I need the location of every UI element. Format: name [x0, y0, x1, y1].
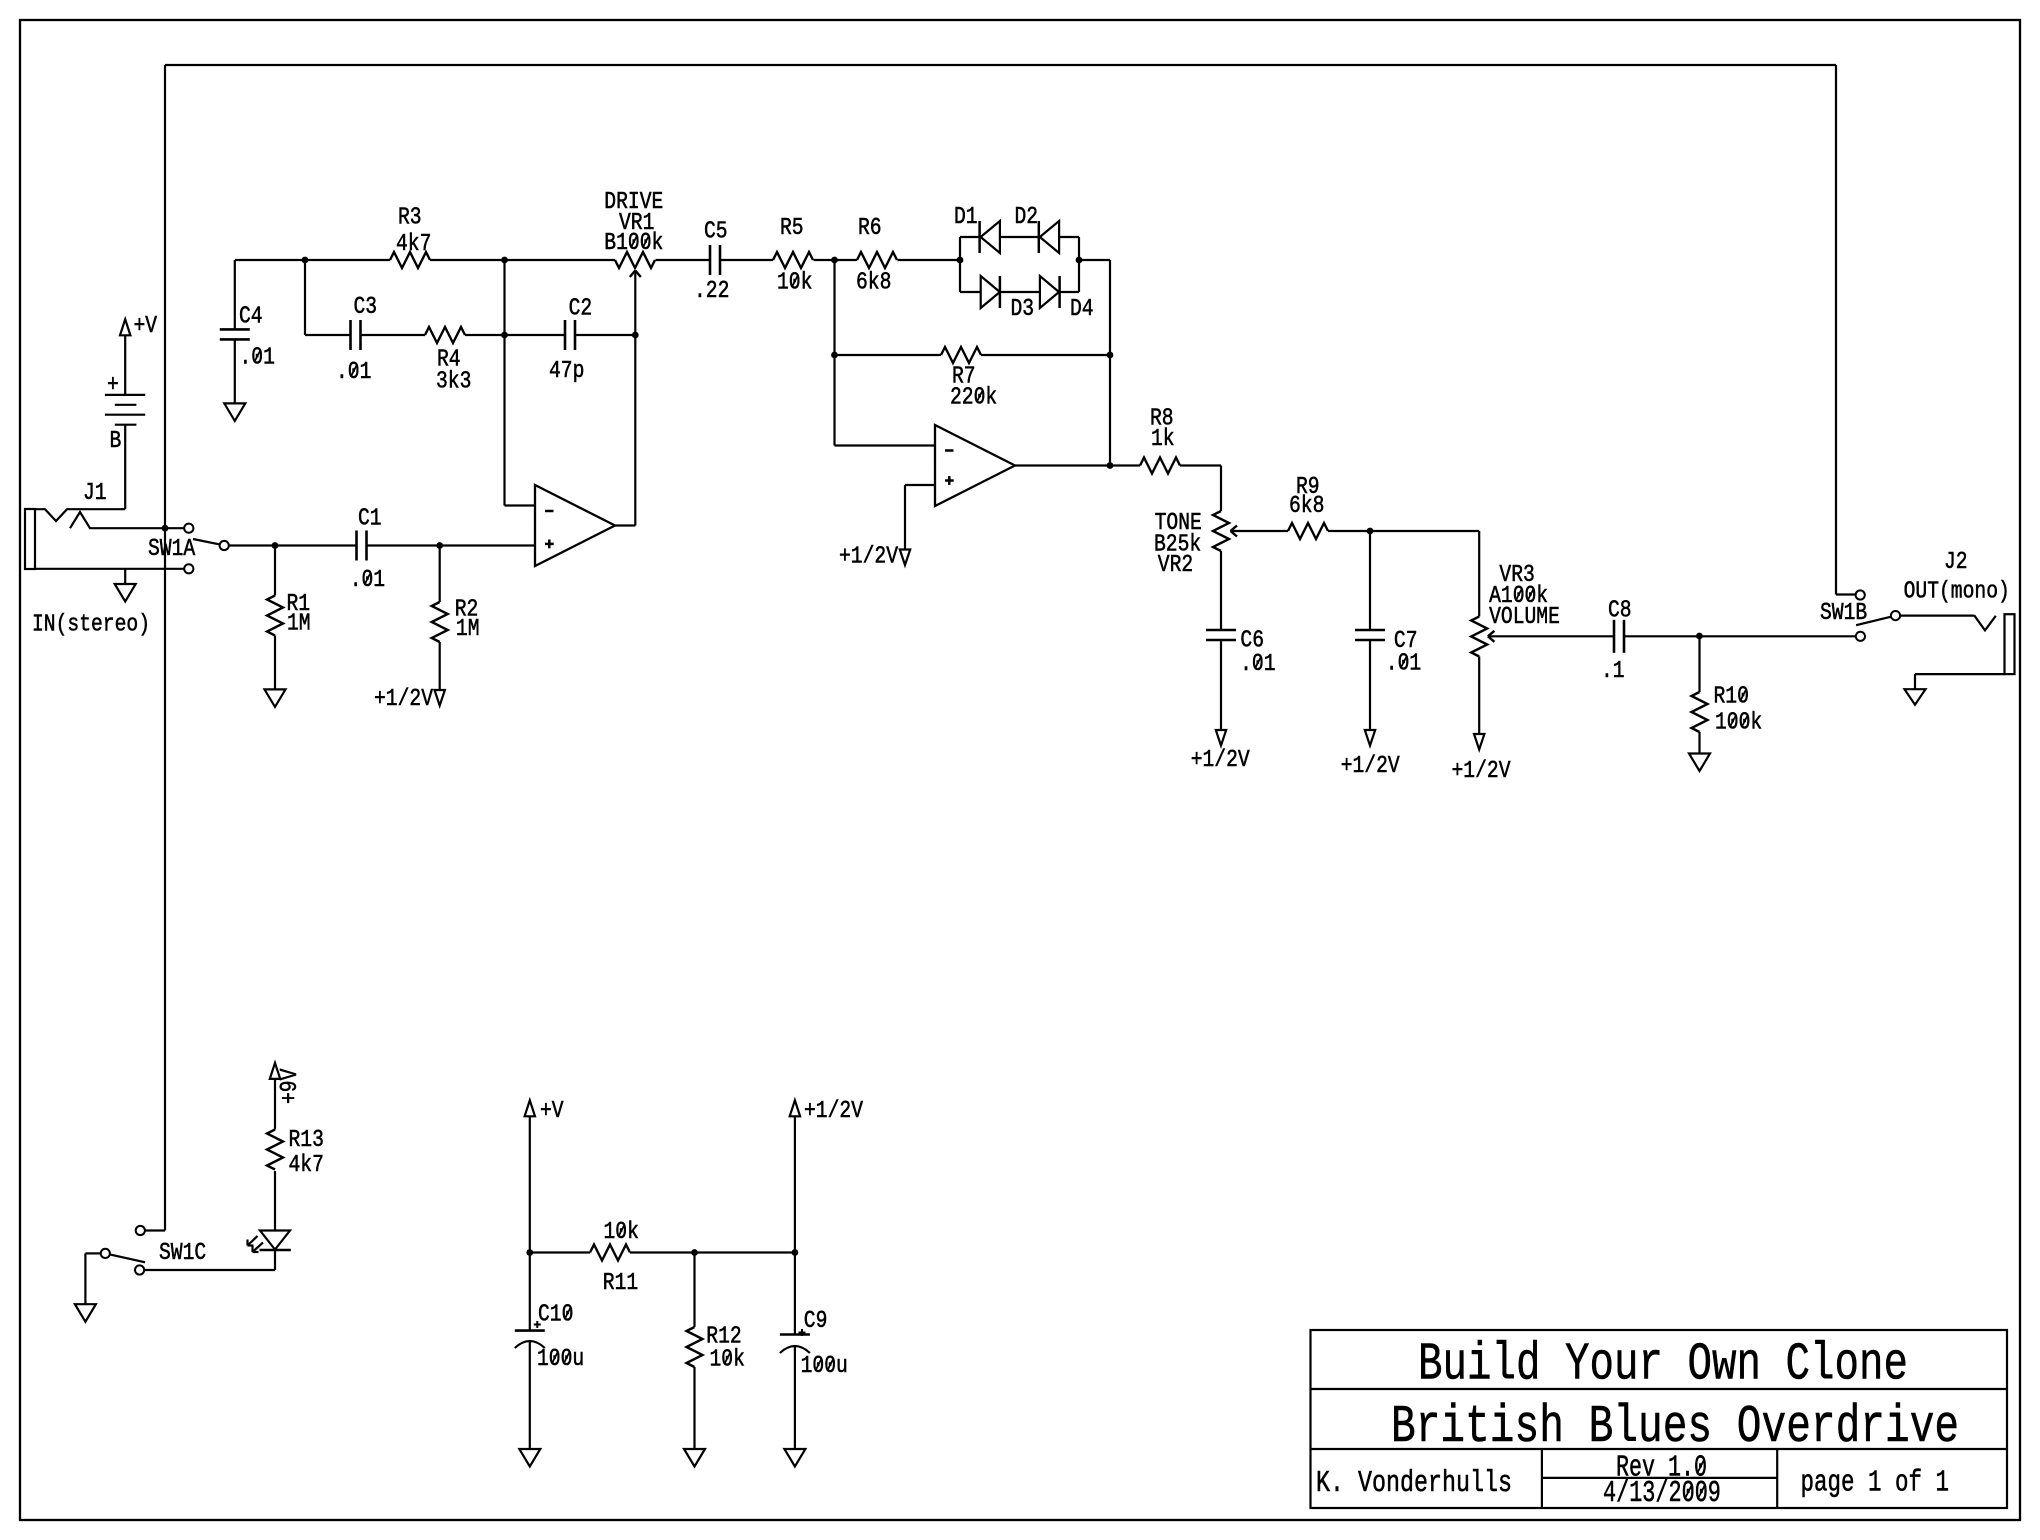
svg-text:100u: 100u [537, 1346, 584, 1373]
svg-text:+1/2V: +1/2V [839, 544, 898, 571]
svg-text:+1/2V: +1/2V [1191, 747, 1250, 774]
svg-text:VOLUME: VOLUME [1489, 604, 1560, 631]
svg-text:+: + [107, 372, 119, 399]
svg-text:R3: R3 [398, 205, 422, 232]
svg-text:D3: D3 [1011, 296, 1035, 323]
svg-text:J1: J1 [83, 480, 107, 507]
svg-text:4k7: 4k7 [289, 1152, 324, 1179]
svg-text:Build Your Own Clone: Build Your Own Clone [1418, 1335, 1908, 1395]
svg-text:1M: 1M [287, 611, 311, 638]
svg-text:R10: R10 [1714, 684, 1749, 711]
svg-text:1k: 1k [1151, 426, 1175, 453]
svg-text:D2: D2 [1015, 204, 1039, 231]
svg-text:4/13/2009: 4/13/2009 [1603, 1477, 1721, 1511]
svg-text:1M: 1M [456, 616, 480, 643]
svg-text:R5: R5 [780, 215, 804, 242]
svg-text:C3: C3 [354, 294, 378, 321]
svg-text:+1/2V: +1/2V [374, 686, 433, 713]
svg-text:C8: C8 [1608, 598, 1632, 625]
svg-text:100u: 100u [801, 1353, 848, 1380]
svg-text:SW1B: SW1B [1820, 600, 1867, 627]
svg-text:6k8: 6k8 [856, 270, 891, 297]
svg-text:page 1 of 1: page 1 of 1 [1801, 1467, 1950, 1501]
svg-text:C9: C9 [804, 1308, 828, 1335]
svg-text:.22: .22 [694, 278, 729, 305]
svg-text:100k: 100k [1715, 710, 1762, 737]
svg-text:C2: C2 [569, 296, 593, 323]
svg-text:IN(stereo): IN(stereo) [32, 612, 150, 639]
svg-text:SW1C: SW1C [159, 1240, 206, 1267]
svg-text:C5: C5 [704, 219, 728, 246]
svg-text:+1/2V: +1/2V [1341, 753, 1400, 780]
svg-text:+V: +V [540, 1098, 564, 1125]
svg-text:B: B [110, 428, 122, 455]
svg-text:+1/2V: +1/2V [804, 1098, 863, 1125]
svg-text:D4: D4 [1070, 296, 1094, 323]
svg-text:R11: R11 [603, 1270, 638, 1297]
svg-text:VR2: VR2 [1158, 552, 1193, 579]
svg-text:R13: R13 [289, 1127, 324, 1154]
svg-text:K. Vonderhulls: K. Vonderhulls [1316, 1467, 1512, 1501]
svg-text:47p: 47p [549, 358, 584, 385]
svg-text:C1: C1 [358, 506, 382, 533]
svg-text:220k: 220k [950, 385, 997, 412]
svg-text:+9V: +9V [277, 1068, 304, 1104]
svg-text:3k3: 3k3 [436, 369, 471, 396]
svg-text:SW1A: SW1A [148, 536, 195, 563]
svg-text:+1/2V: +1/2V [1452, 758, 1511, 785]
svg-text:D1: D1 [954, 204, 978, 231]
svg-text:6k8: 6k8 [1289, 493, 1324, 520]
svg-text:J2: J2 [1944, 549, 1968, 576]
svg-text:C4: C4 [239, 304, 263, 331]
svg-text:.1: .1 [1601, 658, 1625, 685]
svg-text:4k7: 4k7 [396, 231, 431, 258]
svg-text:R6: R6 [858, 215, 882, 242]
svg-text:OUT(mono): OUT(mono) [1904, 579, 2010, 606]
svg-text:British Blues Overdrive: British Blues Overdrive [1391, 1397, 1959, 1457]
svg-text:C10: C10 [538, 1302, 573, 1329]
svg-text:+V: +V [134, 313, 158, 340]
